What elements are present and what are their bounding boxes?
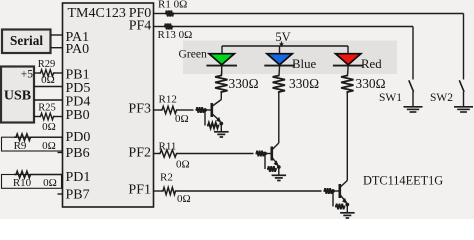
resistor R9 0Ω with outline box bbox=[2, 134, 63, 152]
transistor Q1 (green, DTC114E) bbox=[196, 100, 229, 138]
svg-text:Red: Red bbox=[361, 57, 382, 71]
svg-text:R12: R12 bbox=[159, 93, 177, 105]
svg-text:R9: R9 bbox=[14, 140, 27, 152]
svg-text:PF3: PF3 bbox=[128, 101, 151, 116]
pin stub PB7 bbox=[58, 193, 63, 195]
resistor R10 0Ω with outline box bbox=[2, 171, 62, 189]
5V rail wire bbox=[222, 45, 348, 47]
wire Serial to PA1 bbox=[51, 34, 63, 36]
svg-text:0Ω: 0Ω bbox=[43, 177, 57, 189]
pin stub PB6 bbox=[58, 152, 63, 154]
wire red LED to R red bbox=[347, 65, 350, 75]
svg-text:Blue: Blue bbox=[292, 57, 316, 71]
svg-text:330Ω: 330Ω bbox=[229, 76, 259, 91]
wire R25 to PB0 bbox=[56, 116, 63, 118]
svg-text:USB: USB bbox=[4, 89, 31, 104]
ground under SW2 bbox=[454, 106, 473, 108]
svg-text:0Ω: 0Ω bbox=[42, 121, 56, 133]
svg-text:0Ω: 0Ω bbox=[175, 113, 189, 125]
svg-text:R2: R2 bbox=[160, 171, 173, 183]
resistor R11 0Ω bbox=[158, 141, 190, 171]
wire blue LED to R blue bbox=[278, 65, 281, 75]
wire R green to Q1 collector bbox=[220, 93, 222, 100]
switch SW2 bbox=[430, 80, 464, 106]
svg-text:PF2: PF2 bbox=[128, 145, 151, 160]
wire R2 to Q3 base resistor bbox=[178, 190, 322, 192]
wire green LED to R green bbox=[221, 65, 223, 75]
5V arrow to rail bbox=[279, 42, 283, 48]
svg-text:R1 0Ω: R1 0Ω bbox=[158, 0, 187, 11]
wire R12 to Q1 base resistor bbox=[179, 109, 194, 111]
svg-text:330Ω: 330Ω bbox=[289, 76, 319, 91]
resistor 330Ω (green) bbox=[215, 75, 227, 94]
wire rail to red LED bbox=[347, 46, 349, 54]
switch SW1 bbox=[379, 80, 414, 106]
resistor R12 0Ω bbox=[159, 93, 189, 125]
wire R9 to PD0 bbox=[33, 136, 63, 138]
LED D1 green bbox=[209, 54, 234, 65]
svg-text:R10: R10 bbox=[13, 177, 32, 189]
wire Serial to PA0 bbox=[51, 47, 63, 49]
resistor 330Ω (blue) bbox=[273, 75, 285, 94]
wire PF4 out bbox=[154, 26, 165, 28]
resistor R1 0Ω bbox=[158, 0, 187, 17]
svg-text:0Ω: 0Ω bbox=[177, 193, 191, 205]
svg-text:+5: +5 bbox=[21, 68, 33, 80]
transistor Q3 (red, DTC114E) bbox=[324, 181, 355, 219]
wire down to SW1 bbox=[412, 27, 414, 80]
resistor R29 0Ω bbox=[38, 59, 56, 86]
svg-text:5V: 5V bbox=[275, 30, 290, 44]
svg-text:TM4C123: TM4C123 bbox=[68, 6, 126, 21]
svg-text:DTC114EET1G: DTC114EET1G bbox=[363, 174, 443, 188]
LED highlight band bbox=[183, 41, 397, 75]
connector Serial bbox=[2, 30, 51, 54]
wire R10 to PD1 bbox=[33, 174, 63, 176]
svg-text:R25: R25 bbox=[38, 103, 56, 114]
MCU U1 TM4C123 body bbox=[63, 3, 154, 207]
wire rail to blue LED bbox=[279, 46, 281, 54]
svg-text:PA0: PA0 bbox=[66, 42, 90, 57]
svg-text:R11: R11 bbox=[159, 141, 177, 153]
resistor R2 0Ω bbox=[160, 171, 191, 205]
resistor R25 0Ω bbox=[38, 103, 56, 134]
svg-text:Serial: Serial bbox=[10, 33, 43, 48]
ground under SW1 bbox=[404, 106, 423, 108]
svg-text:Green: Green bbox=[179, 47, 208, 60]
wire USB to R29 bbox=[34, 72, 39, 74]
wire R13 to SW1 bbox=[173, 26, 413, 28]
resistor 330Ω (red) bbox=[341, 75, 353, 94]
wire R blue to Q2 collector bbox=[278, 93, 280, 143]
wire PF3 out bbox=[154, 109, 161, 111]
LED D2 blue bbox=[267, 54, 292, 65]
wire R29 to PB1 bbox=[56, 72, 63, 74]
resistor R13 0Ω bbox=[158, 24, 193, 41]
wire USB to PD4 bbox=[34, 99, 63, 101]
wire down to SW2 bbox=[463, 14, 465, 80]
svg-text:PB7: PB7 bbox=[66, 188, 90, 203]
svg-text:SW1: SW1 bbox=[379, 92, 402, 104]
svg-text:PB6: PB6 bbox=[66, 146, 90, 161]
svg-text:PD0: PD0 bbox=[66, 130, 91, 145]
transistor Q2 (blue, DTC114E) bbox=[256, 143, 287, 181]
svg-text:R29: R29 bbox=[38, 59, 56, 70]
wire USB to PD5 bbox=[34, 86, 63, 88]
svg-text:PD1: PD1 bbox=[66, 170, 91, 185]
svg-text:0Ω: 0Ω bbox=[176, 158, 190, 170]
svg-text:0Ω: 0Ω bbox=[41, 74, 55, 86]
wire R red to Q3 collector bbox=[346, 93, 348, 181]
svg-text:R13 0Ω: R13 0Ω bbox=[158, 29, 193, 41]
wire USB to R25 bbox=[34, 116, 39, 118]
svg-text:0Ω: 0Ω bbox=[42, 140, 56, 152]
svg-text:PF4: PF4 bbox=[129, 18, 152, 33]
svg-text:330Ω: 330Ω bbox=[356, 76, 386, 91]
wire PF2 out bbox=[154, 153, 159, 155]
svg-text:PF1: PF1 bbox=[128, 182, 151, 197]
wire R11 to Q2 base resistor bbox=[179, 153, 254, 155]
svg-text:PB0: PB0 bbox=[66, 108, 90, 123]
LED D3 red bbox=[336, 54, 361, 65]
wire PF0 out bbox=[154, 13, 166, 15]
wire R1 to SW2 bbox=[174, 13, 464, 15]
svg-text:SW2: SW2 bbox=[430, 92, 453, 104]
wire PF1 out bbox=[154, 190, 162, 192]
wire rail to green LED bbox=[221, 46, 223, 54]
connector USB bbox=[1, 67, 34, 123]
